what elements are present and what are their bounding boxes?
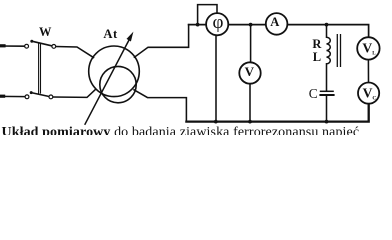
switch W pole 1: [25, 40, 56, 49]
node V branch top: [249, 23, 253, 27]
caption: [2, 125, 360, 141]
meter VL (voltmeter across RL): [357, 37, 379, 59]
autotransformer At winding 2: [100, 66, 136, 102]
wire top feed: [0, 45, 25, 47]
capacitor C plates: [319, 91, 334, 95]
switch W pole 2: [25, 91, 53, 99]
meter V (voltmeter): [239, 62, 260, 83]
wire L2 input stub bottom: [0, 95, 4, 98]
wire bottom rail: [186, 104, 368, 122]
wire coil to capacitor: [326, 64, 328, 91]
svg-text:C: C: [309, 86, 318, 101]
meter VC (voltmeter across C): [358, 83, 379, 104]
node loop tap: [196, 23, 200, 27]
svg-text:At: At: [103, 27, 118, 41]
svg-text:A: A: [270, 15, 279, 29]
autotransformer adjustment arrow: [85, 32, 134, 125]
autotransformer At winding 1: [89, 46, 140, 97]
wire switch to transformer top: [56, 47, 94, 58]
wire V branch top: [250, 25, 252, 63]
svg-text:L: L: [313, 50, 321, 64]
wire transformer to bottom rail: [134, 90, 186, 122]
node V branch bottom: [248, 120, 252, 124]
wire phi to bottom rail: [215, 35, 217, 121]
inductor RL coil: [327, 37, 331, 64]
node phi bottom: [214, 120, 218, 124]
wire phi voltage loop: [198, 5, 217, 25]
wire capacitor to bottom rail: [326, 95, 328, 121]
svg-text:R: R: [312, 37, 322, 51]
wire top rail: [189, 25, 369, 38]
wire between VL and VC: [367, 60, 369, 83]
wire L1 input stub top: [0, 44, 4, 47]
wire RLC branch top: [326, 25, 328, 38]
wire transformer to top rail: [134, 25, 188, 58]
svg-text:V: V: [245, 64, 255, 79]
node RLC branch top: [325, 23, 329, 27]
meter A (ammeter): [266, 13, 288, 35]
node capacitor bottom: [325, 120, 329, 124]
inductor core: [337, 34, 340, 67]
svg-text:W: W: [39, 25, 52, 39]
meter phi: [206, 12, 228, 36]
switch W mechanical link: [39, 43, 41, 93]
wire switch to transformer bottom: [53, 90, 96, 98]
wire bottom feed: [0, 95, 25, 97]
svg-text:φ: φ: [213, 12, 224, 33]
wire V branch bottom: [249, 84, 251, 122]
